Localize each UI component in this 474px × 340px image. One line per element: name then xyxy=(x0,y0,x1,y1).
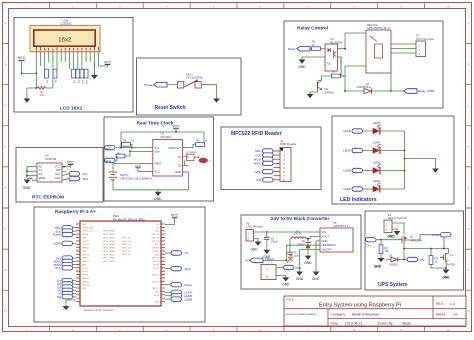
net flag LEDR (RPi right) xyxy=(165,297,192,301)
svg-text:SDA: SDA xyxy=(83,177,89,181)
svg-text:A: A xyxy=(5,21,7,25)
ground (D2) xyxy=(304,256,312,265)
net flag D1 (RPi right) xyxy=(165,251,189,255)
net flag UPS (UPS block) xyxy=(407,257,425,262)
capacitor C2 100uF xyxy=(264,232,278,250)
diode D1 1N4007RLG xyxy=(357,82,372,94)
wire: switch to ground xyxy=(202,85,217,99)
svg-text:F: F xyxy=(468,227,470,231)
resistor R11 xyxy=(84,69,88,85)
svg-text:VCC: VCC xyxy=(171,214,179,218)
svg-text:GND: GND xyxy=(250,247,258,251)
wire: P2 pin2 to ground xyxy=(254,239,259,242)
MOSFET Q3 2N7000 xyxy=(440,253,455,266)
net flag GND (RFID) xyxy=(255,169,273,173)
ground (LCD left) xyxy=(24,88,31,103)
capacitor C1 100uF (output) xyxy=(287,239,301,258)
svg-text:GPIO26: GPIO26 xyxy=(82,285,90,287)
svg-text:Q2: Q2 xyxy=(325,87,329,91)
svg-text:SCL: SCL xyxy=(106,146,112,150)
svg-text:SQW/OUT: SQW/OUT xyxy=(168,146,181,150)
svg-text:UPS: UPS xyxy=(419,258,425,262)
net flag UPS (buck) xyxy=(284,265,302,270)
net flag SDA (RPi left) xyxy=(55,226,76,230)
svg-text:GND: GND xyxy=(374,265,382,269)
svg-text:GPIO_G5: GPIO_G5 xyxy=(122,254,132,256)
svg-text:SDA: SDA xyxy=(55,176,61,180)
svg-text:GPIO_GEN2: GPIO_GEN2 xyxy=(103,237,115,239)
svg-text:GPIO6: GPIO6 xyxy=(82,275,89,277)
wire: diode to Relay_PWR flag xyxy=(391,90,403,92)
svg-text:Relay Control: Relay Control xyxy=(297,26,328,32)
svg-text:B: B xyxy=(5,62,7,66)
svg-text:1/1: 1/1 xyxy=(453,313,458,317)
ground GND (RTC) xyxy=(154,190,162,201)
svg-text:GPIO_GEN1: GPIO_GEN1 xyxy=(103,234,115,236)
block frame: Raspberry Pi 3 A+ xyxy=(34,207,205,322)
LCD pin stubs xyxy=(36,51,98,55)
block frame: RTC EEPROM xyxy=(16,148,103,203)
ground (RPi) xyxy=(63,300,76,310)
svg-text:RS: RS xyxy=(57,295,61,299)
svg-text:Date:: Date: xyxy=(331,322,339,326)
svg-text:Battery Terminal: Battery Terminal xyxy=(388,216,407,220)
svg-text:VCC: VCC xyxy=(18,56,26,60)
wire: LED common cathode bus to ground xyxy=(405,131,436,189)
svg-text:GND: GND xyxy=(298,65,306,69)
svg-text:GND: GND xyxy=(39,176,45,180)
svg-text:GPIO8: GPIO8 xyxy=(153,261,160,263)
connector P5 UPS output xyxy=(261,265,276,280)
wire: LEDR row xyxy=(363,130,405,132)
inductor L1 100uH (VOUT row) xyxy=(290,230,320,239)
svg-text:1: 1 xyxy=(266,267,268,271)
svg-text:2019-04-21: 2019-04-21 xyxy=(345,322,362,326)
net flag 3V3 (RPi left) xyxy=(56,256,76,260)
svg-text:GND: GND xyxy=(255,170,261,174)
svg-text:Real Time Clock: Real Time Clock xyxy=(137,121,174,127)
svg-text:LEDP: LEDP xyxy=(373,179,380,183)
svg-text:B: B xyxy=(468,62,470,66)
svg-text:GND: GND xyxy=(304,261,312,265)
resistor R1 100 (zigzag) xyxy=(37,87,45,98)
net flag D6 (RPi left) xyxy=(57,282,76,286)
svg-text:VOUT: VOUT xyxy=(322,235,330,239)
svg-text:Raspberry Pi 3 A+: Raspberry Pi 3 A+ xyxy=(55,209,96,215)
svg-text:H: H xyxy=(468,309,470,313)
svg-text:Reset Switch: Reset Switch xyxy=(154,105,185,111)
svg-text:2N7000: 2N7000 xyxy=(446,263,455,266)
wire: R4/Q3 to ground xyxy=(431,262,446,270)
ground (P2) xyxy=(250,242,261,252)
net flag MISO (RPi left) xyxy=(54,262,76,266)
svg-text:GND: GND xyxy=(322,239,328,243)
svg-text:NC: NC xyxy=(327,62,331,66)
svg-text:1N5822: 1N5822 xyxy=(389,264,398,267)
svg-text:GPIO23: GPIO23 xyxy=(152,248,160,250)
wire: RTC top rail xyxy=(121,132,204,148)
svg-text:GPIO15: GPIO15 xyxy=(152,238,160,240)
block frame: 24V to 5V Buck Converter xyxy=(241,215,361,289)
svg-text:LM2576T-5.0: LM2576T-5.0 xyxy=(333,224,349,228)
svg-text:LEDR: LEDR xyxy=(185,297,193,301)
svg-text:GPIO7: GPIO7 xyxy=(153,264,160,266)
svg-text:REV:: REV: xyxy=(436,302,444,306)
svg-text:GND: GND xyxy=(154,197,162,201)
svg-text:C: C xyxy=(468,104,470,108)
svg-text:100uF: 100uF xyxy=(271,241,279,244)
svg-text:GPIO14: GPIO14 xyxy=(152,234,160,236)
svg-text:GPIO_GEN0: GPIO_GEN0 xyxy=(103,231,115,233)
wire: base network xyxy=(310,76,331,94)
svg-text:GPIO16: GPIO16 xyxy=(152,281,160,283)
svg-text:10: 10 xyxy=(447,328,451,332)
ground (LED bus) xyxy=(432,169,439,173)
net flag Relay_PWR xyxy=(404,89,436,94)
svg-text:GPIO21: GPIO21 xyxy=(152,288,160,290)
LED LEDB xyxy=(373,161,381,174)
LCD display DS1 body xyxy=(30,25,100,52)
svg-text:GPIO11: GPIO11 xyxy=(82,261,90,263)
svg-text:SDA: SDA xyxy=(154,150,160,154)
resistor R7 1k (SDA pullup) xyxy=(116,152,125,158)
svg-text:2N3904: 2N3904 xyxy=(325,91,335,95)
svg-text:2 Pin Terminal: 2 Pin Terminal xyxy=(246,225,263,229)
svg-text:5V: 5V xyxy=(245,259,249,263)
svg-text:VCC: VCC xyxy=(172,125,180,129)
wire: relay contacts to P1 xyxy=(391,44,416,53)
svg-text:SPD-05VDC-SL-C: SPD-05VDC-SL-C xyxy=(367,26,390,30)
block frame: LCD 16X2 xyxy=(14,18,133,113)
wire: crystal to X1/X2 xyxy=(185,157,199,166)
net flag 5V (buck output) xyxy=(245,257,288,263)
net flag Power (UPS output) xyxy=(409,233,451,249)
svg-text:GND: GND xyxy=(23,186,31,190)
net flag SCK (RFID) xyxy=(255,153,273,157)
svg-text:Relay: Relay xyxy=(288,47,296,51)
svg-text:Akash Enterprises: Akash Enterprises xyxy=(352,313,380,317)
resistor R7 1k (base) xyxy=(331,70,340,78)
svg-text:LED Indicators: LED Indicators xyxy=(340,197,377,203)
svg-text:Power: Power xyxy=(144,83,153,87)
battery BATT1 FRIT-COIN_CELLLR2450-H xyxy=(109,172,153,181)
ground (R3) xyxy=(374,258,384,269)
svg-text:GPIO13: GPIO13 xyxy=(82,278,90,280)
svg-text:C: C xyxy=(4,104,6,108)
svg-text:GPIO22: GPIO22 xyxy=(82,248,90,250)
wire: LCD data pin drops xyxy=(40,56,98,70)
ground GND (battery -) xyxy=(387,231,400,238)
svg-text:100uH: 100uH xyxy=(294,233,301,236)
LED LEDR xyxy=(373,121,381,134)
svg-text:GPIO27: GPIO27 xyxy=(82,244,90,246)
wire: 24V input rail to VIN xyxy=(254,231,321,233)
net flag SCL (EEPROM) xyxy=(62,172,88,176)
svg-text:GPIO_GEN7: GPIO_GEN7 xyxy=(103,254,115,256)
svg-text:10: 10 xyxy=(447,4,451,8)
svg-text:H: H xyxy=(4,309,6,313)
net flag SCK (RPi left) xyxy=(55,266,76,270)
ground (C2) xyxy=(263,250,271,259)
svg-text:LEDB: LEDB xyxy=(373,161,380,165)
svg-text:7V+: 7V+ xyxy=(366,243,371,247)
svg-text:UPS: UPS xyxy=(295,266,301,270)
VCC (left of LCD) xyxy=(18,56,26,60)
wire: Relay flag to R2 xyxy=(310,48,312,50)
VCC (right of LCD) xyxy=(99,60,112,66)
svg-text:3V3: 3V3 xyxy=(256,178,262,182)
VCC (EEPROM) xyxy=(62,160,75,167)
wire: LEDP row xyxy=(363,188,405,190)
diode D2 1N5820 (catch) xyxy=(297,238,311,256)
crystal Y1 32.768KHZ xyxy=(186,152,212,163)
svg-text:GPIO10: GPIO10 xyxy=(82,254,90,256)
svg-text:D: D xyxy=(468,145,470,149)
ground (reset switch) xyxy=(213,99,220,103)
svg-text:GPIO_G0: GPIO_G0 xyxy=(122,237,132,239)
svg-text:1N4007RLG: 1N4007RLG xyxy=(357,85,371,89)
svg-text:GPIO_GEN6: GPIO_GEN6 xyxy=(103,251,115,253)
net flag LEDB xyxy=(343,168,362,172)
svg-text:32.768KHZ: 32.768KHZ xyxy=(186,152,198,154)
wire: LEDG row xyxy=(363,150,405,152)
svg-text:LEDG: LEDG xyxy=(373,141,380,145)
connector P4 Battery Terminal xyxy=(384,213,407,233)
net flag MOSI (RFID) xyxy=(254,157,273,161)
svg-text:VIN: VIN xyxy=(322,230,327,234)
svg-text:24V to 5V Buck Converter: 24V to 5V Buck Converter xyxy=(271,216,330,222)
svg-text:Sheet:: Sheet: xyxy=(436,313,446,317)
svg-text:TITLE:: TITLE: xyxy=(286,297,295,301)
svg-text:LEDP: LEDP xyxy=(53,242,61,246)
net flag Relay (RPi right) xyxy=(165,283,192,287)
svg-text:Akash: Akash xyxy=(402,322,412,326)
wire: P5 pin2 to ground xyxy=(276,276,286,278)
svg-text:LCD 16X2: LCD 16X2 xyxy=(60,106,83,112)
svg-text:MISO: MISO xyxy=(254,162,262,166)
ground (U5 ON/OFF) xyxy=(296,272,304,282)
net flag SDA (RFID) xyxy=(255,149,273,153)
svg-text:DS1307+: DS1307+ xyxy=(161,135,173,139)
svg-text:SCL: SCL xyxy=(154,146,160,150)
block frame: Relay Control xyxy=(284,21,443,108)
resistor R9 xyxy=(76,69,80,84)
block frame: MFC522 RFID Reader xyxy=(221,127,321,190)
svg-text:LEDB: LEDB xyxy=(343,169,351,173)
svg-text:GND: GND xyxy=(312,277,320,281)
net flag Power (reset input) xyxy=(144,82,167,87)
wire: R1 to contrast pin xyxy=(27,56,53,89)
net flag SCL (RPi left) xyxy=(55,229,76,233)
svg-text:GPIO19: GPIO19 xyxy=(82,281,90,283)
block frame: Reset Switch xyxy=(137,58,242,115)
svg-text:G: G xyxy=(468,268,470,272)
net flag SDA (RPi right) xyxy=(165,266,191,270)
svg-text:Power: Power xyxy=(432,233,440,237)
svg-text:Company:: Company: xyxy=(331,313,347,317)
svg-text:X1: X1 xyxy=(178,155,182,159)
svg-text:X2: X2 xyxy=(178,164,182,168)
svg-text:UPS System: UPS System xyxy=(378,282,408,288)
svg-text:SDA: SDA xyxy=(106,159,112,163)
svg-text:ID_SD: ID_SD xyxy=(82,268,88,270)
svg-text:GND: GND xyxy=(155,244,160,246)
svg-text:A: A xyxy=(468,21,470,25)
svg-text:GP20: GP20 xyxy=(154,295,160,297)
svg-text:VCC: VCC xyxy=(135,164,142,168)
VCC (RTC supply) xyxy=(172,125,180,132)
svg-text:G: G xyxy=(4,268,6,272)
svg-text:LEDG: LEDG xyxy=(343,149,352,153)
net flag LEDP xyxy=(343,187,362,191)
resistor R6 1k (SQW pullup) xyxy=(196,140,208,147)
svg-text:AT24C08: AT24C08 xyxy=(45,157,57,161)
svg-text:100: 100 xyxy=(40,94,45,97)
wire: WP tie xyxy=(62,170,66,172)
svg-text:FEEDBACK: FEEDBACK xyxy=(322,243,337,247)
transistor Q2 2N3904 xyxy=(318,81,335,95)
svg-text:VCC: VCC xyxy=(67,160,74,164)
wire: optocoupler cathode to GND xyxy=(302,57,325,60)
svg-text:GPIO4: GPIO4 xyxy=(82,234,89,236)
svg-text:GPIO24: GPIO24 xyxy=(152,251,160,253)
wire: battery + to Q1 source xyxy=(392,223,404,234)
svg-text:RTC EEPROM: RTC EEPROM xyxy=(32,194,64,200)
wire: address pins to ground rail xyxy=(27,167,37,181)
svg-text:BATT1: BATT1 xyxy=(120,174,128,177)
svg-text:Entry System using Raspberry P: Entry System using Raspberry Pi xyxy=(319,302,401,308)
svg-text:SCL: SCL xyxy=(83,172,89,176)
ground GND (relay input side) xyxy=(298,60,306,69)
wire: collector rail to diode row xyxy=(338,57,392,91)
svg-text:GPIO9: GPIO9 xyxy=(82,258,89,260)
net flag Relay (drive input) xyxy=(288,46,310,51)
net flag LEDP (RPi left) xyxy=(53,241,76,245)
svg-text:GPIO_G4: GPIO_G4 xyxy=(122,251,132,253)
wire: R2 to optocoupler xyxy=(320,48,325,50)
net flag RS (RPi left) xyxy=(57,295,76,299)
svg-text:GND: GND xyxy=(155,291,160,293)
ground GND (EEPROM) xyxy=(23,180,31,191)
svg-text:PWR24: PWR24 xyxy=(265,257,274,261)
resistor R4 1k xyxy=(429,249,438,265)
svg-text:GPIO25: GPIO25 xyxy=(152,258,160,260)
ground (P5) xyxy=(282,277,290,286)
ground (Q2 emitter) xyxy=(307,94,314,98)
svg-text:SCK: SCK xyxy=(55,266,61,270)
svg-text:D1: D1 xyxy=(185,251,189,255)
resistor R10 xyxy=(80,69,84,85)
net flag LEDB (RPi right) xyxy=(165,294,192,298)
svg-text:GPIO_GEN4: GPIO_GEN4 xyxy=(103,244,115,246)
svg-text:Power: Power xyxy=(53,233,61,237)
svg-text:GPIO_G1: GPIO_G1 xyxy=(122,241,132,243)
svg-text:Relay_PWR: Relay_PWR xyxy=(418,89,435,93)
net flag LEDG (RPi right) xyxy=(165,290,193,294)
svg-text:TS-1102-501E: TS-1102-501E xyxy=(186,76,203,80)
LED LEDG xyxy=(373,141,381,154)
svg-text:GND: GND xyxy=(82,288,87,290)
svg-text:GND: GND xyxy=(155,254,160,256)
connector P2 2 Pin Terminal xyxy=(246,221,263,241)
optocoupler U4 MCT2EM xyxy=(325,37,342,71)
wire: Power flag to switch xyxy=(167,84,177,86)
title block xyxy=(284,296,466,326)
svg-text:3 Pin Terminal: 3 Pin Terminal xyxy=(416,37,434,41)
relay RELAY1 SPD-05VDC-SL-C xyxy=(366,23,391,73)
fuse mark (output node) xyxy=(287,255,293,262)
regulator U5 LM2576T-5.0 xyxy=(320,221,353,252)
svg-text:GPIO18: GPIO18 xyxy=(152,241,160,243)
svg-text:GPIO_GEN3: GPIO_GEN3 xyxy=(103,241,115,243)
svg-text:GND: GND xyxy=(296,277,304,281)
svg-text:GPIO5: GPIO5 xyxy=(82,271,89,273)
svg-text:GND: GND xyxy=(82,264,87,266)
svg-text:D: D xyxy=(4,145,6,149)
wire: optocoupler collector to relay coil xyxy=(338,33,367,76)
svg-text:Q1: Q1 xyxy=(410,235,414,239)
IC U3 AT24C08 xyxy=(37,154,62,182)
wire: FEEDBACK sense xyxy=(287,241,321,272)
resistor R3 10k xyxy=(379,240,389,258)
net flag LEDG xyxy=(343,148,362,152)
resistor R8 (LCD data pullup) xyxy=(72,69,76,84)
pushbutton KEY1 TS-1102-501E xyxy=(178,72,203,88)
svg-text:GPIO_GEN5: GPIO_GEN5 xyxy=(103,248,115,250)
svg-text:GPIO2_SDA: GPIO2_SDA xyxy=(82,226,94,229)
svg-text:GPIO17: GPIO17 xyxy=(82,241,90,243)
net flag SDA (RTC) xyxy=(105,158,116,163)
svg-text:SDA: SDA xyxy=(185,267,191,271)
svg-text:LEDR: LEDR xyxy=(373,121,380,125)
svg-text:E: E xyxy=(468,186,470,190)
svg-text:ID_SC: ID_SC xyxy=(153,268,159,270)
connector J1 RFID Reader xyxy=(274,139,297,182)
net flag D4 (RPi left) xyxy=(57,288,76,292)
net flag 3V3 (RFID) xyxy=(256,178,273,182)
resistor R2 (LCD contrast divider) xyxy=(45,69,49,84)
ground (LCD backlight cathode) xyxy=(91,62,98,79)
svg-text:RFID Reader: RFID Reader xyxy=(280,142,297,146)
svg-text:VCC: VCC xyxy=(104,60,112,64)
svg-text:GPIO_G3: GPIO_G3 xyxy=(122,248,132,250)
svg-text:GND: GND xyxy=(175,170,181,174)
wire: LEDB row xyxy=(363,170,405,172)
svg-text:1.0: 1.0 xyxy=(450,302,455,306)
net flag SDA (EEPROM) xyxy=(62,176,88,180)
svg-text:GPIO_GEN8: GPIO_GEN8 xyxy=(103,258,115,260)
svg-text:GND: GND xyxy=(82,238,87,240)
net flag E (RPi left) xyxy=(59,291,76,295)
svg-text:LEDR: LEDR xyxy=(343,129,351,133)
net flag D5 (RPi left) xyxy=(57,285,76,289)
block frame: UPS System xyxy=(365,211,464,290)
ground (U5 GND pin) xyxy=(312,272,320,282)
svg-text:MFC522 RFID Reader: MFC522 RFID Reader xyxy=(231,131,282,137)
svg-text:2: 2 xyxy=(266,275,268,279)
resistor R2 1k xyxy=(312,40,321,51)
IC U1 DS1307+ xyxy=(147,131,189,176)
block frame: LED indicators xyxy=(332,116,454,204)
LED LEDP xyxy=(373,179,381,192)
svg-text:Relay: Relay xyxy=(185,283,193,287)
resistor R5 1k (SCL pullup) xyxy=(122,139,135,146)
header PIE1 PA_RASPI_BPLUS_BRD xyxy=(76,214,165,312)
diode D3 1N5822 xyxy=(389,254,398,266)
svg-text:GPIO_GEN9: GPIO_GEN9 xyxy=(103,261,115,263)
svg-text:LEDP: LEDP xyxy=(343,187,351,191)
net flag SCL (RTC) xyxy=(105,145,116,150)
